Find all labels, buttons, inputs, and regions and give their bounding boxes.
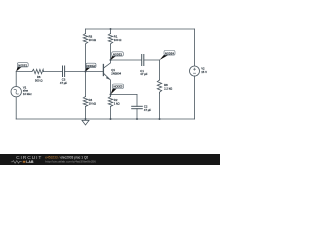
wire R2 top xyxy=(110,95,112,97)
node NODE4 flag xyxy=(160,51,176,61)
junction dot R8 ground xyxy=(159,118,161,120)
transistor Q1 collector lead xyxy=(103,60,110,68)
node NODE2 flag xyxy=(86,63,97,71)
wire V1 top xyxy=(15,72,17,87)
wire R3 bottom to base node xyxy=(85,44,87,72)
resistor R2 xyxy=(108,97,112,107)
V2 plus minus xyxy=(193,68,196,73)
svg-text:2.2 kΩ: 2.2 kΩ xyxy=(164,86,172,90)
node NODE5 flag xyxy=(111,84,124,95)
label C3 xyxy=(60,78,67,85)
wire C2 top xyxy=(136,95,138,107)
label V2 xyxy=(201,67,207,74)
resistor R1 xyxy=(108,34,112,45)
resistor R3 xyxy=(83,34,87,45)
wire node4 down to R8 xyxy=(159,60,161,80)
label Q1 xyxy=(111,68,121,76)
svg-text:100 Ω: 100 Ω xyxy=(114,38,122,42)
wire top rail VCC xyxy=(86,28,195,30)
wire V2 bottom xyxy=(194,76,196,119)
wire R2 bottom to rail xyxy=(110,107,112,120)
capacitor C1 xyxy=(142,55,144,66)
label R3 xyxy=(89,35,96,42)
wire C2 bottom to rail xyxy=(136,109,138,119)
ground symbol xyxy=(82,119,89,125)
label R6 xyxy=(35,75,43,82)
junction dot R4 ground xyxy=(85,118,87,120)
svg-text:500 Ω: 500 Ω xyxy=(35,79,43,83)
svg-text:NODE5: NODE5 xyxy=(114,85,123,89)
footer bar xyxy=(0,154,220,165)
node NODE3 flag xyxy=(111,52,124,60)
wire V1 bottom xyxy=(15,97,17,119)
resistor R8 xyxy=(157,80,161,93)
wire V2 top xyxy=(194,29,196,66)
resistor R4 xyxy=(83,97,87,107)
wire R6 to C3 xyxy=(44,71,63,73)
label C1 xyxy=(140,69,147,76)
svg-text:2N3904: 2N3904 xyxy=(111,72,121,76)
label R2 xyxy=(114,98,120,105)
footer logo zigzag xyxy=(11,161,22,164)
svg-text:http://circuitlab.com/c/4ad39b: http://circuitlab.com/c/4ad39be8b356 xyxy=(45,159,96,163)
V1 sine symbol xyxy=(13,89,19,95)
label V1 xyxy=(23,86,32,96)
wire C1 to node4 xyxy=(144,59,160,61)
wire node1 corner to R6 xyxy=(16,71,32,73)
label R8 xyxy=(164,83,172,90)
svg-text:10 kΩ: 10 kΩ xyxy=(89,102,96,106)
wire R4 bottom to rail xyxy=(85,107,87,120)
node NODE1 flag xyxy=(16,63,28,72)
wire R8 bottom to ground rail xyxy=(159,93,161,119)
svg-text:NODE1: NODE1 xyxy=(18,63,27,67)
svg-text:47 µF: 47 µF xyxy=(60,81,67,85)
transistor Q1 base bar xyxy=(102,65,104,76)
capacitor C2 xyxy=(132,106,143,108)
wire bottom ground rail xyxy=(16,118,194,120)
label R1 xyxy=(114,35,122,42)
wire R1 top stub xyxy=(110,29,112,34)
wire emitter node to C2 xyxy=(111,94,138,96)
resistor R6 xyxy=(32,69,44,73)
junction dot R1 top rail xyxy=(110,28,112,30)
svg-text:NODE4: NODE4 xyxy=(165,51,174,55)
voltage source V2 xyxy=(190,66,200,76)
svg-text:47 µF: 47 µF xyxy=(144,108,151,112)
label C2 xyxy=(144,105,151,112)
wire C3 to transistor base xyxy=(65,71,104,73)
svg-text:10 kHz: 10 kHz xyxy=(23,92,32,96)
svg-text:NODE3: NODE3 xyxy=(113,52,122,56)
svg-text:15 V: 15 V xyxy=(201,70,207,74)
label R4 xyxy=(89,98,96,105)
wire collector node to C1 xyxy=(111,59,142,61)
junction dot R2 ground xyxy=(110,118,112,120)
transistor Q1 emitter lead xyxy=(103,73,110,94)
junction dot C2 ground xyxy=(136,118,138,120)
transistor Q1 emitter arrow xyxy=(106,76,111,80)
svg-text:NODE2: NODE2 xyxy=(87,64,96,68)
svg-text:LAB: LAB xyxy=(26,160,34,164)
wire R4 top xyxy=(85,72,87,97)
footer logo spark xyxy=(23,161,26,163)
junction dot collector node xyxy=(110,59,112,61)
wire R1 bottom to collector xyxy=(110,44,112,60)
svg-text:47 µF: 47 µF xyxy=(140,72,147,76)
junction dot base node xyxy=(85,71,87,73)
junction dot emitter node xyxy=(110,94,112,96)
svg-text:1 kΩ: 1 kΩ xyxy=(114,102,120,106)
capacitor C3 xyxy=(63,66,65,77)
voltage source V1 xyxy=(11,87,21,97)
wire R3 top stub xyxy=(85,29,87,34)
svg-text:10 kΩ: 10 kΩ xyxy=(89,38,96,42)
